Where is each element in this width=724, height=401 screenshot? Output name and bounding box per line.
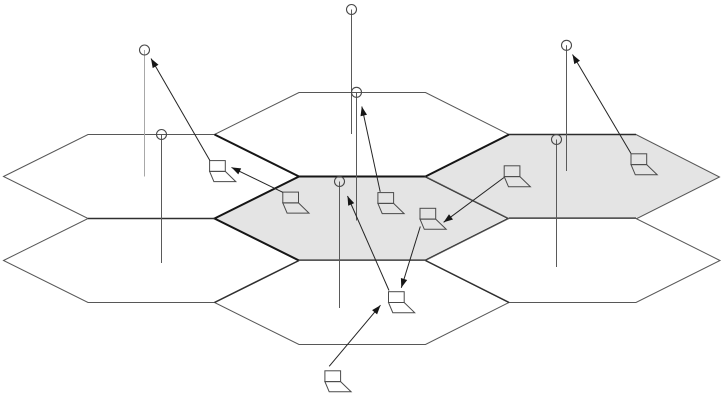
thick boundary segment between hex1 and hex3	[215, 135, 300, 177]
thick bottom boundary of right shaded cell	[509, 217, 636, 219]
antenna circle BS4	[352, 87, 362, 97]
cell hexagon 5 (right, shaded, thin outline)	[426, 135, 720, 219]
antenna mast BS2	[161, 135, 163, 264]
arrow MS4 to MS6	[401, 227, 420, 288]
cell hexagon 4 (center, shaded)	[215, 177, 510, 261]
arrow MS2 to MS1	[232, 167, 283, 192]
antenna mast BS3	[351, 10, 353, 135]
arrow MS3 to BS4	[361, 107, 381, 192]
cell hexagon 2 (left bottom, white)	[4, 219, 300, 303]
arrow MS8 to MS6	[329, 305, 380, 366]
laptop MS8	[325, 371, 351, 392]
antenna circle BS7	[552, 135, 562, 145]
cell hexagon 7 (bottom right, white)	[426, 219, 721, 303]
antenna mast BS1 (gray)	[144, 50, 146, 177]
cell hexagon 1 (left middle, white)	[4, 135, 300, 219]
double-drawn shared edge hex1/hex2	[88, 218, 215, 220]
antenna circle BS6	[335, 177, 345, 187]
cell hexagon 3 (top middle, white)	[215, 93, 510, 177]
antenna circle BS2	[157, 130, 167, 140]
laptop MS3	[378, 193, 404, 214]
antenna circle BS1	[140, 45, 150, 55]
arrow MS7 to BS5	[573, 55, 632, 154]
antenna mast BS5	[566, 45, 568, 171]
laptop MS7	[631, 154, 657, 175]
antenna mast BS7	[556, 140, 558, 268]
cell hexagon 6 (bottom middle, white)	[215, 261, 510, 345]
laptop MS4	[420, 208, 446, 229]
antenna circle BS3	[347, 5, 357, 15]
laptop MS2	[283, 192, 309, 213]
laptop MS1	[210, 161, 236, 182]
medium top boundary of right shaded cell	[509, 134, 636, 136]
arrow MS1 to BS1	[151, 59, 210, 161]
arrow MS6 to BS6	[348, 196, 390, 291]
laptop MS6	[389, 292, 415, 313]
antenna mast BS6	[339, 182, 341, 309]
antenna mast BS4	[356, 92, 358, 220]
arrow MS5 to MS4	[444, 178, 504, 223]
double-drawn shared edge hex2/hex6	[215, 261, 300, 303]
antenna circle BS5	[562, 40, 572, 50]
thick slant boundary left of right shaded cell	[426, 135, 510, 177]
double-drawn shared edge hex6/hex7	[426, 261, 510, 303]
laptop MS5	[504, 166, 530, 187]
